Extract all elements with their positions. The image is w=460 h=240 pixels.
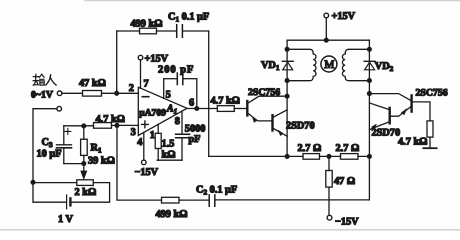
svg-text:4.7 kΩ: 4.7 kΩ	[398, 136, 427, 147]
resistor 2.7 left	[303, 154, 320, 160]
wire +15V to pin7	[140, 60, 142, 88]
resistor 4.7k output	[217, 106, 234, 112]
pin1 stub to 1.5k	[157, 124, 159, 133]
svg-text:2 kΩ: 2 kΩ	[75, 187, 97, 198]
svg-text:M: M	[324, 59, 334, 71]
resistor 1.5k	[155, 133, 161, 148]
svg-text:4: 4	[137, 137, 142, 148]
svg-text:6: 6	[189, 98, 194, 109]
motor M	[321, 56, 337, 72]
wire input leg down to battery	[33, 182, 66, 202]
node R1 bottom junction	[82, 162, 86, 166]
capacitor 5000pF	[176, 134, 190, 138]
feedback vertical down to emitter rail	[208, 31, 210, 156]
lower input terminal circle	[57, 106, 62, 111]
op-amp U1 triangle	[138, 87, 187, 135]
node pin2 feedback junction	[115, 91, 119, 95]
svg-text:A1: A1	[166, 103, 177, 115]
wire 4.7k to op-amp pin3	[112, 124, 139, 126]
svg-text:47 Ω: 47 Ω	[334, 176, 355, 187]
wire C2 to 499k bottom	[179, 199, 209, 201]
svg-text:−15V: −15V	[135, 167, 159, 178]
wire pin4 to -15V	[143, 132, 145, 160]
motor winding L1	[287, 49, 316, 80]
svg-text:pF: pF	[188, 134, 200, 145]
svg-text:4.7 kΩ: 4.7 kΩ	[96, 114, 125, 125]
svg-text:5000: 5000	[185, 123, 206, 134]
potentiometer 2k	[77, 180, 94, 186]
node +15V rail junction	[324, 38, 328, 42]
transistor Q4 2SD70 right	[389, 108, 391, 123]
pin8 stub to 5000pF	[181, 111, 183, 134]
motor winding L2	[342, 49, 369, 80]
Q3 base wire to 4.7k	[412, 102, 430, 121]
capacitor C3 10uF	[63, 126, 65, 145]
resistor R1 39k	[83, 126, 85, 139]
svg-text:0~1V: 0~1V	[31, 90, 53, 101]
wire to 499k top	[117, 30, 140, 32]
wire 4.7k to Q1 base	[234, 108, 247, 110]
capacitor C1 0.1uF	[177, 25, 183, 37]
svg-text:2SD70: 2SD70	[286, 121, 315, 132]
svg-text:4.7 kΩ: 4.7 kΩ	[211, 96, 240, 107]
svg-text:kΩ: kΩ	[162, 149, 176, 160]
wire +15V down to rail	[325, 18, 327, 40]
svg-text:8: 8	[175, 116, 180, 127]
wire pot left to input leg	[33, 182, 77, 184]
svg-text:499 kΩ: 499 kΩ	[131, 19, 163, 30]
pin5 stub	[163, 79, 165, 99]
svg-text:C1 0.1 μF: C1 0.1 μF	[168, 12, 209, 24]
op-amp minus sign	[142, 96, 149, 98]
svg-text:+15V: +15V	[332, 11, 356, 22]
wire 499k to pin3 leg	[117, 125, 162, 200]
svg-text:2: 2	[129, 83, 134, 94]
svg-text:−15V: −15V	[335, 217, 359, 228]
emitter rail	[209, 155, 370, 157]
svg-text:499 kΩ: 499 kΩ	[156, 209, 188, 220]
diode VD1	[282, 60, 293, 62]
svg-text:2.7 Ω: 2.7 Ω	[298, 143, 322, 154]
transistor Q2 2SD70	[271, 115, 273, 130]
svg-text:C2 0.1 μF: C2 0.1 μF	[196, 185, 237, 197]
wire lower terminal to left leg	[33, 109, 57, 183]
svg-text:1.5: 1.5	[162, 138, 175, 149]
op-amp plus sign	[142, 121, 149, 128]
svg-text:VD1: VD1	[261, 60, 280, 72]
node Q1 collector junction	[285, 94, 289, 98]
node rail center junction	[327, 155, 331, 159]
wire Q3 collector	[369, 94, 411, 101]
input label 输入	[33, 74, 44, 85]
resistor 4.7k offset (left of pin3)	[94, 123, 112, 129]
comp capacitor 200pF	[164, 78, 177, 80]
node left coil top	[285, 47, 289, 51]
svg-text:39 kΩ: 39 kΩ	[88, 155, 115, 166]
resistor 499k top	[140, 28, 157, 34]
node pot left junction	[31, 180, 35, 184]
wire 47k to op-amp pin2	[102, 92, 139, 94]
node Q3 collector junction	[368, 92, 372, 96]
node R1 top junction	[82, 124, 86, 128]
svg-text:VD2: VD2	[375, 61, 394, 73]
node left emitter junction	[285, 155, 289, 159]
svg-text:+15V: +15V	[145, 54, 169, 65]
node left coil bottom	[285, 79, 289, 83]
wire pot right down to battery	[71, 183, 110, 203]
+15V motor supply terminal	[324, 13, 329, 18]
diode VD2	[364, 60, 375, 62]
-15V tail terminal	[327, 215, 332, 220]
svg-text:2SC756: 2SC756	[248, 87, 280, 98]
input terminal circle	[57, 91, 62, 96]
ground	[423, 147, 436, 149]
svg-text:μA709: μA709	[139, 107, 166, 118]
resistor 47 tail	[328, 156, 330, 170]
svg-text:3: 3	[131, 127, 136, 138]
svg-text:1: 1	[150, 130, 155, 141]
potentiometer wiper arrow	[83, 164, 85, 172]
+15V op-amp supply terminal	[138, 55, 143, 60]
resistor 2.7 right	[341, 154, 359, 160]
input label 入	[46, 75, 56, 85]
wire 4.7k left to RC node	[64, 125, 94, 127]
node right coil top	[368, 47, 372, 51]
resistor 47k	[83, 91, 102, 97]
svg-text:5: 5	[166, 89, 171, 100]
output wire pin6	[187, 108, 217, 110]
battery 1V	[66, 195, 68, 209]
svg-text:47 kΩ: 47 kΩ	[79, 78, 106, 89]
svg-text:7: 7	[144, 79, 149, 90]
wire 200pF to output	[196, 79, 198, 109]
node right coil bottom	[368, 79, 372, 83]
node 200pF output junction	[195, 107, 199, 111]
node right emitter junction	[368, 155, 372, 159]
svg-text:1 V: 1 V	[58, 214, 74, 225]
left branch vertical	[286, 40, 288, 156]
svg-text:200 pF: 200 pF	[158, 64, 194, 75]
wire C3 to R1 bottom	[64, 163, 84, 165]
transistor Q3 2SC756 right	[410, 95, 412, 111]
wire 1.5k to 5000pF bottom	[157, 159, 182, 161]
capacitor C2 0.1uF	[209, 195, 215, 206]
svg-text:2SD70: 2SD70	[372, 128, 401, 139]
motor top rail	[287, 39, 369, 41]
svg-text:2SC756: 2SC756	[416, 88, 448, 99]
svg-text:2.7 Ω: 2.7 Ω	[336, 143, 360, 154]
feedback top: wire pin2 node up	[116, 31, 118, 93]
wire 499k to C1	[157, 30, 177, 32]
right tail down wire	[215, 156, 369, 200]
right branch vertical	[368, 40, 370, 156]
wire input terminal to 47k	[62, 92, 83, 94]
scan smudge bottom border	[0, 229, 460, 231]
node pin3 feedback junction	[115, 124, 119, 128]
svg-text:10 μF: 10 μF	[37, 148, 62, 159]
-15V op-amp supply terminal	[142, 160, 147, 165]
resistor 499k bottom	[162, 197, 180, 203]
scan smudge top border	[85, 0, 460, 2]
svg-text:R1: R1	[91, 143, 102, 155]
wire C1 right to feedback vertical	[183, 30, 209, 32]
resistor 4.7k right	[427, 121, 433, 137]
transistor Q1 2SC756	[246, 101, 248, 115]
